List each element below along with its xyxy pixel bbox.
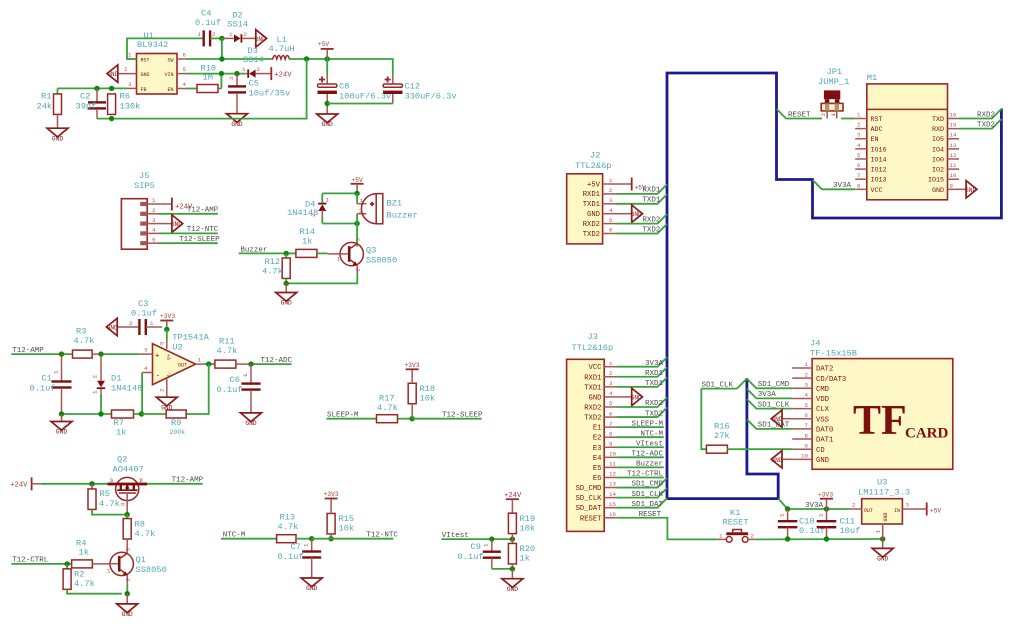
svg-text:C4: C4 [201,9,211,19]
svg-text:T12-NTC: T12-NTC [187,226,219,234]
svg-text:SD1_CLK: SD1_CLK [758,401,790,409]
svg-text:4.7uH: 4.7uH [269,44,295,54]
wire SD1_CLK down to R16 [701,389,706,450]
net SD1_DAT to J4 DAT0 [747,419,792,429]
svg-text:1: 1 [779,513,786,517]
svg-text:+5V: +5V [930,508,942,515]
svg-text:E2: E2 [593,435,602,443]
svg-text:BZ1: BZ1 [387,199,403,209]
svg-text:T12-SLEEP: T12-SLEEP [179,236,220,244]
svg-text:6: 6 [857,162,861,169]
svg-text:CMD: CMD [816,386,829,394]
svg-text:R7: R7 [114,418,124,428]
net Buzzer at J3 pin 11 [616,466,663,468]
net 3V3A from bus to M1 VCC [813,180,856,189]
svg-text:8: 8 [857,182,861,189]
capacitor C7 0.1uf [311,539,313,551]
svg-text:3V3A: 3V3A [645,360,664,368]
svg-text:3V3A: 3V3A [833,182,852,190]
svg-text:J5: J5 [139,171,149,181]
svg-text:RST: RST [871,116,883,124]
svg-text:TF-15x15B: TF-15x15B [810,349,857,359]
svg-text:CLX: CLX [816,406,830,414]
node +5V feedback branch [304,56,309,61]
connector J5 SIP5 [121,199,147,250]
node D1 bottom [98,411,103,416]
svg-text:3: 3 [805,382,809,389]
net RXD2 to bus [616,214,667,224]
svg-text:C1: C1 [42,374,52,384]
J2 pin4 ground [616,213,632,215]
U1 pin 3 FB [127,87,137,89]
svg-text:RXD2: RXD2 [583,221,600,229]
svg-text:1k: 1k [302,237,312,247]
U1 pin 4 EN [177,88,186,90]
svg-text:3: 3 [125,548,132,552]
svg-text:C12: C12 [405,82,421,92]
svg-text:4.7k: 4.7k [217,346,238,356]
J5 pin 3 [140,222,147,226]
svg-text:T12-ADC: T12-ADC [631,451,663,459]
svg-text:6: 6 [805,412,809,419]
svg-text:TXD1: TXD1 [645,380,664,388]
node Q1 emitter ground [125,591,130,596]
svg-text:4: 4 [152,227,156,234]
U2 pin 4 -in [142,372,152,374]
resistor R19 10k [511,499,513,513]
svg-text:R16: R16 [714,422,730,432]
svg-text:3: 3 [152,217,156,224]
resistor R18 10k [408,383,416,404]
J4 pin 3 CMD [792,387,812,389]
J5 pin 2 [140,212,147,216]
svg-text:U2: U2 [172,343,182,353]
net TXD2 at M1 RXD [959,119,1001,129]
svg-text:SD1_DAT: SD1_DAT [631,501,663,509]
svg-text:0.1uf: 0.1uf [195,18,221,28]
push button K1 RESET [717,538,726,540]
svg-text:IO0: IO0 [932,156,944,164]
node SLEEP divider [410,416,415,421]
svg-text:TTL2&16p: TTL2&16p [572,343,614,353]
svg-text:2: 2 [355,268,362,272]
svg-text:0.1uf: 0.1uf [278,552,304,562]
svg-text:T12-AMP: T12-AMP [172,477,204,485]
svg-text:GND: GND [122,611,133,618]
net label T12-AMP input [11,353,72,355]
node C9 top [489,536,494,541]
svg-text:1: 1 [830,113,837,117]
J5 pin 5 [140,241,147,245]
resistor R10 1M [186,88,197,90]
svg-text:R13: R13 [280,513,296,523]
net TXD2 to bus at J3 pin 6 [616,408,667,418]
resistor R7 1k [112,410,134,418]
net 3V3A to bus at J3 pin 1 [616,357,667,367]
svg-text:SLEEP-M: SLEEP-M [631,420,663,428]
svg-text:IN: IN [894,508,900,514]
svg-text:+24V: +24V [504,492,522,500]
svg-text:+24V: +24V [274,72,292,80]
supply +24V at J5 [171,198,173,211]
svg-text:E5: E5 [593,465,602,473]
svg-text:1k: 1k [116,428,126,438]
svg-text:13: 13 [609,481,616,488]
svg-text:GND: GND [107,71,118,78]
node C11 bottom [824,536,829,541]
svg-text:1: 1 [229,31,233,38]
resistor R9 200k [166,410,186,418]
net SLEEP-M at J3 pin 7 [616,426,663,428]
M1 pin 3 EN [855,138,867,140]
capacitor C4 [203,30,205,46]
node C6 top [248,361,253,366]
svg-text:1: 1 [326,197,330,204]
svg-text:GND: GND [255,36,266,43]
svg-text:12: 12 [609,471,616,478]
svg-text:R1: R1 [41,92,51,102]
J2 pin1 wire to +5V [616,183,632,185]
svg-text:24k: 24k [37,102,53,112]
svg-text:5: 5 [609,400,613,407]
net TXD2 to bus [616,224,667,234]
svg-text:E6: E6 [593,475,602,483]
node C11 top / +3V3 [824,506,829,511]
svg-text:BL9342: BL9342 [137,40,168,50]
supply +24V at D3 [270,67,272,80]
resistor R4 1k [72,560,93,568]
net VItest at J3 pin 9 [616,446,663,448]
svg-text:GND: GND [965,187,976,194]
svg-text:330uF/6.3v: 330uF/6.3v [405,92,457,102]
svg-text:TTL2&6p: TTL2&6p [575,161,612,171]
ground below Q1 [126,594,128,604]
svg-text:GND: GND [631,394,642,401]
svg-text:1: 1 [150,320,154,327]
svg-text:7: 7 [609,420,613,427]
svg-text:R20: R20 [520,544,536,554]
svg-text:T12-CTRL: T12-CTRL [627,471,664,479]
svg-text:200k: 200k [170,429,186,436]
node C1 top [59,351,64,356]
node SW/C4/D2 [219,36,224,41]
ground at U1 pin 2 [107,65,118,82]
svg-text:1: 1 [198,31,202,38]
svg-text:1: 1 [337,256,341,263]
node R6 bottom [109,116,114,121]
M1 pin 2 ADC [855,128,867,130]
svg-text:RXD1: RXD1 [584,374,601,382]
svg-text:8: 8 [609,430,613,437]
J5 pin 1 [140,202,147,206]
svg-text:39pf: 39pf [76,102,97,112]
net RXD2 to bus at J3 pin 5 [616,397,667,407]
svg-text:GND: GND [877,556,888,563]
svg-text:2: 2 [92,375,99,379]
svg-text:2: 2 [257,66,261,73]
svg-text:11: 11 [609,461,616,468]
svg-text:FB: FB [141,87,147,93]
U1 pin 5 VIN [177,73,186,75]
svg-text:TXD2: TXD2 [642,226,660,234]
wire L1 to +5V node and C12 [289,59,393,76]
wire NTC node [312,538,394,540]
svg-text:RESET: RESET [788,111,811,119]
svg-text:TF: TF [853,398,907,444]
svg-text:Buzzer: Buzzer [240,246,267,254]
svg-text:RESET: RESET [723,518,749,528]
wire FB row [58,87,128,89]
svg-text:C8: C8 [339,82,349,92]
svg-text:SD1_CMD: SD1_CMD [631,481,663,489]
node VIN/R10 [219,71,224,76]
svg-text:0.1uf: 0.1uf [131,309,157,319]
svg-text:TXD1: TXD1 [642,197,661,205]
svg-text:G: G [120,502,127,506]
svg-text:VIN: VIN [164,72,173,78]
svg-text:T12-NTC: T12-NTC [366,532,398,540]
node U3 GND [880,536,885,541]
svg-text:R5: R5 [100,489,110,499]
node R19/R20 [510,536,515,541]
J4 pin 1 DAT2 [792,367,812,369]
svg-text:1: 1 [303,543,310,547]
resistor R20 1k [511,539,513,543]
bus lower branch [667,378,778,498]
resistor R6 130k [108,94,116,115]
svg-text:R17: R17 [379,394,395,404]
svg-text:R6: R6 [120,92,130,102]
net SD1_CLK to J4 CLX [747,399,792,409]
net T12-AMP at J5 pin2 [159,213,218,215]
svg-text:4.7k: 4.7k [135,529,156,539]
svg-text:10: 10 [609,451,616,458]
svg-text:16: 16 [950,112,957,119]
svg-text:+3V3: +3V3 [160,313,175,320]
svg-text:2: 2 [228,76,235,80]
net label T12-CTRL [11,563,71,565]
svg-text:TXD2: TXD2 [584,415,601,423]
J5 pin1 wire to +24V [159,203,172,205]
supply +3V3 at C11 [820,498,833,500]
supply +5V at U3 input [926,503,928,516]
svg-text:SD_CMD: SD_CMD [576,485,602,493]
inductor L1 [273,56,290,60]
svg-text:GND: GND [771,457,782,464]
svg-text:IO13: IO13 [871,177,887,185]
net T12-SLEEP at J5 pin5 [159,242,218,244]
diode D1 1N4148 [100,354,102,381]
svg-text:+5V: +5V [318,41,330,48]
net T12-CTRL at J3 pin 12 [616,476,663,478]
node R20 bottom [510,566,515,571]
ground rail K1 to U3 [756,538,883,540]
node Q2 gate / R8 [125,512,130,517]
svg-text:4: 4 [857,142,861,149]
svg-text:E3: E3 [593,445,602,453]
svg-text:SD1_CMD: SD1_CMD [758,381,790,389]
svg-text:J2: J2 [590,151,600,161]
svg-text:R14: R14 [300,227,316,237]
svg-text:1: 1 [242,373,249,377]
svg-text:T12-CTRL: T12-CTRL [12,557,49,565]
svg-text:GND: GND [322,121,333,128]
svg-text:15: 15 [950,122,957,129]
svg-text:C5: C5 [249,79,259,89]
connector J4 TF-15x15B [812,359,953,470]
svg-text:RXD1: RXD1 [583,191,600,199]
node C10 top [785,506,790,511]
svg-text:OUT: OUT [178,363,187,369]
svg-text:2: 2 [359,208,363,215]
resistor R14 1k [286,252,296,254]
svg-text:SD1_DAT: SD1_DAT [758,422,790,430]
M1 pin 12 IO0 [948,158,960,160]
svg-text:1: 1 [609,177,613,184]
capacitor C3 0.1uf [138,319,140,335]
svg-text:R11: R11 [219,337,235,347]
M1 pin 1 RST [855,118,867,120]
svg-text:4.7k: 4.7k [278,522,299,532]
svg-text:3: 3 [609,197,613,204]
capacitor C2 39pf [96,88,98,101]
wire VIN row [186,73,245,75]
svg-text:14: 14 [609,491,616,498]
wire R16 to J4 CD [738,448,793,450]
M1 pin 10 IO15 [948,178,960,180]
M1 pin 8 VCC [855,188,867,190]
svg-text:IO4: IO4 [932,146,944,154]
svg-text:1: 1 [818,513,825,517]
svg-text:T12-AMP: T12-AMP [187,207,219,215]
svg-text:RESET: RESET [580,515,602,523]
capacitor C5 10uf/35v [236,74,238,86]
J4 pin 2 CD/DAT3 [792,377,812,379]
wire C4 to D2 node [210,37,222,39]
svg-text:GND: GND [245,420,256,427]
net T12-AMP at Q2 drain [147,483,203,485]
node output [206,361,211,366]
svg-text:8: 8 [805,432,809,439]
M1 pin 9 GND [948,188,960,190]
supply +3V3 at R15 [325,498,338,500]
svg-text:10uf/35v: 10uf/35v [249,89,291,99]
svg-text:+3V3: +3V3 [324,491,339,498]
svg-text:4: 4 [144,365,148,372]
capacitor C11 10uf [826,509,828,520]
node R5 top [89,481,94,486]
svg-text:2: 2 [805,371,809,378]
svg-text:VCC: VCC [589,364,603,372]
ground below R1 [47,128,68,137]
svg-text:5: 5 [159,341,166,345]
supply +3V3 at R18 [406,368,419,370]
capacitor C9 0.1uf [491,539,493,551]
svg-text:DAT0: DAT0 [816,427,833,435]
resistor R16 27k [706,445,727,453]
net 3V3A from bus corner [778,499,850,509]
svg-text:SD_DAT: SD_DAT [576,505,603,513]
svg-text:2: 2 [852,502,856,509]
diode D4 1N4148 [318,203,326,205]
svg-text:5: 5 [609,217,613,224]
ground below C1 [61,414,63,422]
svg-text:1: 1 [53,370,60,374]
ground at J3 pin4 [616,396,631,398]
U2 pin 1 output [196,363,204,365]
svg-text:E1: E1 [593,425,602,433]
U2 pin 2 V- to ground [166,379,168,397]
svg-text:JP1: JP1 [827,67,843,77]
node +3V3/C3 [164,327,169,332]
svg-text:5: 5 [152,236,156,243]
svg-text:5: 5 [857,152,861,159]
svg-text:3V3A: 3V3A [758,391,777,399]
svg-text:16: 16 [609,511,616,518]
svg-text:10k: 10k [420,394,436,404]
U3 pin 2 OUT [850,508,862,510]
diode D3 SS14 [247,69,249,77]
svg-text:SS8050: SS8050 [136,565,167,575]
ground at J4 VSS [782,418,792,420]
node SW row at C4 branch [219,56,224,61]
wire Q3 emitter to ground rail [286,273,357,283]
svg-text:GND: GND [141,72,150,78]
U3 pin 3 IN [902,508,913,510]
node buzzer bottom [354,221,359,226]
svg-text:2: 2 [751,532,755,539]
op-amp U2 TP1541A [153,344,196,385]
IC module M1 [867,84,948,200]
IC U1 BL9342 buck converter [137,54,178,95]
svg-text:2: 2 [609,370,613,377]
svg-text:SS14: SS14 [227,19,248,29]
svg-text:VDD: VDD [816,396,829,404]
net SD1_CMD to bus at J3 pin 13 [616,478,667,488]
wire SW row [186,58,273,60]
svg-text:T12-AMP: T12-AMP [12,347,44,355]
svg-text:VItest: VItest [442,532,469,540]
svg-text:GND: GND [816,457,829,465]
svg-text:Q3: Q3 [366,245,376,255]
ground below C6 [241,413,262,422]
buzzer BZ1 [356,193,358,203]
svg-text:7: 7 [857,172,861,179]
svg-text:10: 10 [801,453,808,460]
svg-text:1N4148: 1N4148 [111,384,142,394]
svg-text:6: 6 [609,227,613,234]
J4 pin 10 GND [792,458,812,460]
svg-text:IO14: IO14 [871,156,887,164]
supply +5V at buzzer [351,183,364,185]
svg-text:M1: M1 [867,73,877,83]
svg-text:10k: 10k [520,524,536,534]
svg-text:0.1uf: 0.1uf [30,384,56,394]
node emitter/R12 ground [284,281,289,286]
svg-text:GND: GND [171,221,182,228]
svg-text:VItest: VItest [636,440,663,448]
svg-text:EN: EN [871,136,879,144]
J4 pin 8 DAT1 [792,438,812,440]
capacitor C10 0.1uf [787,509,789,520]
svg-text:IO2: IO2 [932,167,944,175]
svg-text:3: 3 [128,81,132,88]
svg-text:IO15: IO15 [928,177,944,185]
svg-text:11: 11 [950,162,957,169]
node C8 branch [325,56,330,61]
svg-text:4: 4 [183,81,187,88]
svg-text:3: 3 [355,238,362,242]
